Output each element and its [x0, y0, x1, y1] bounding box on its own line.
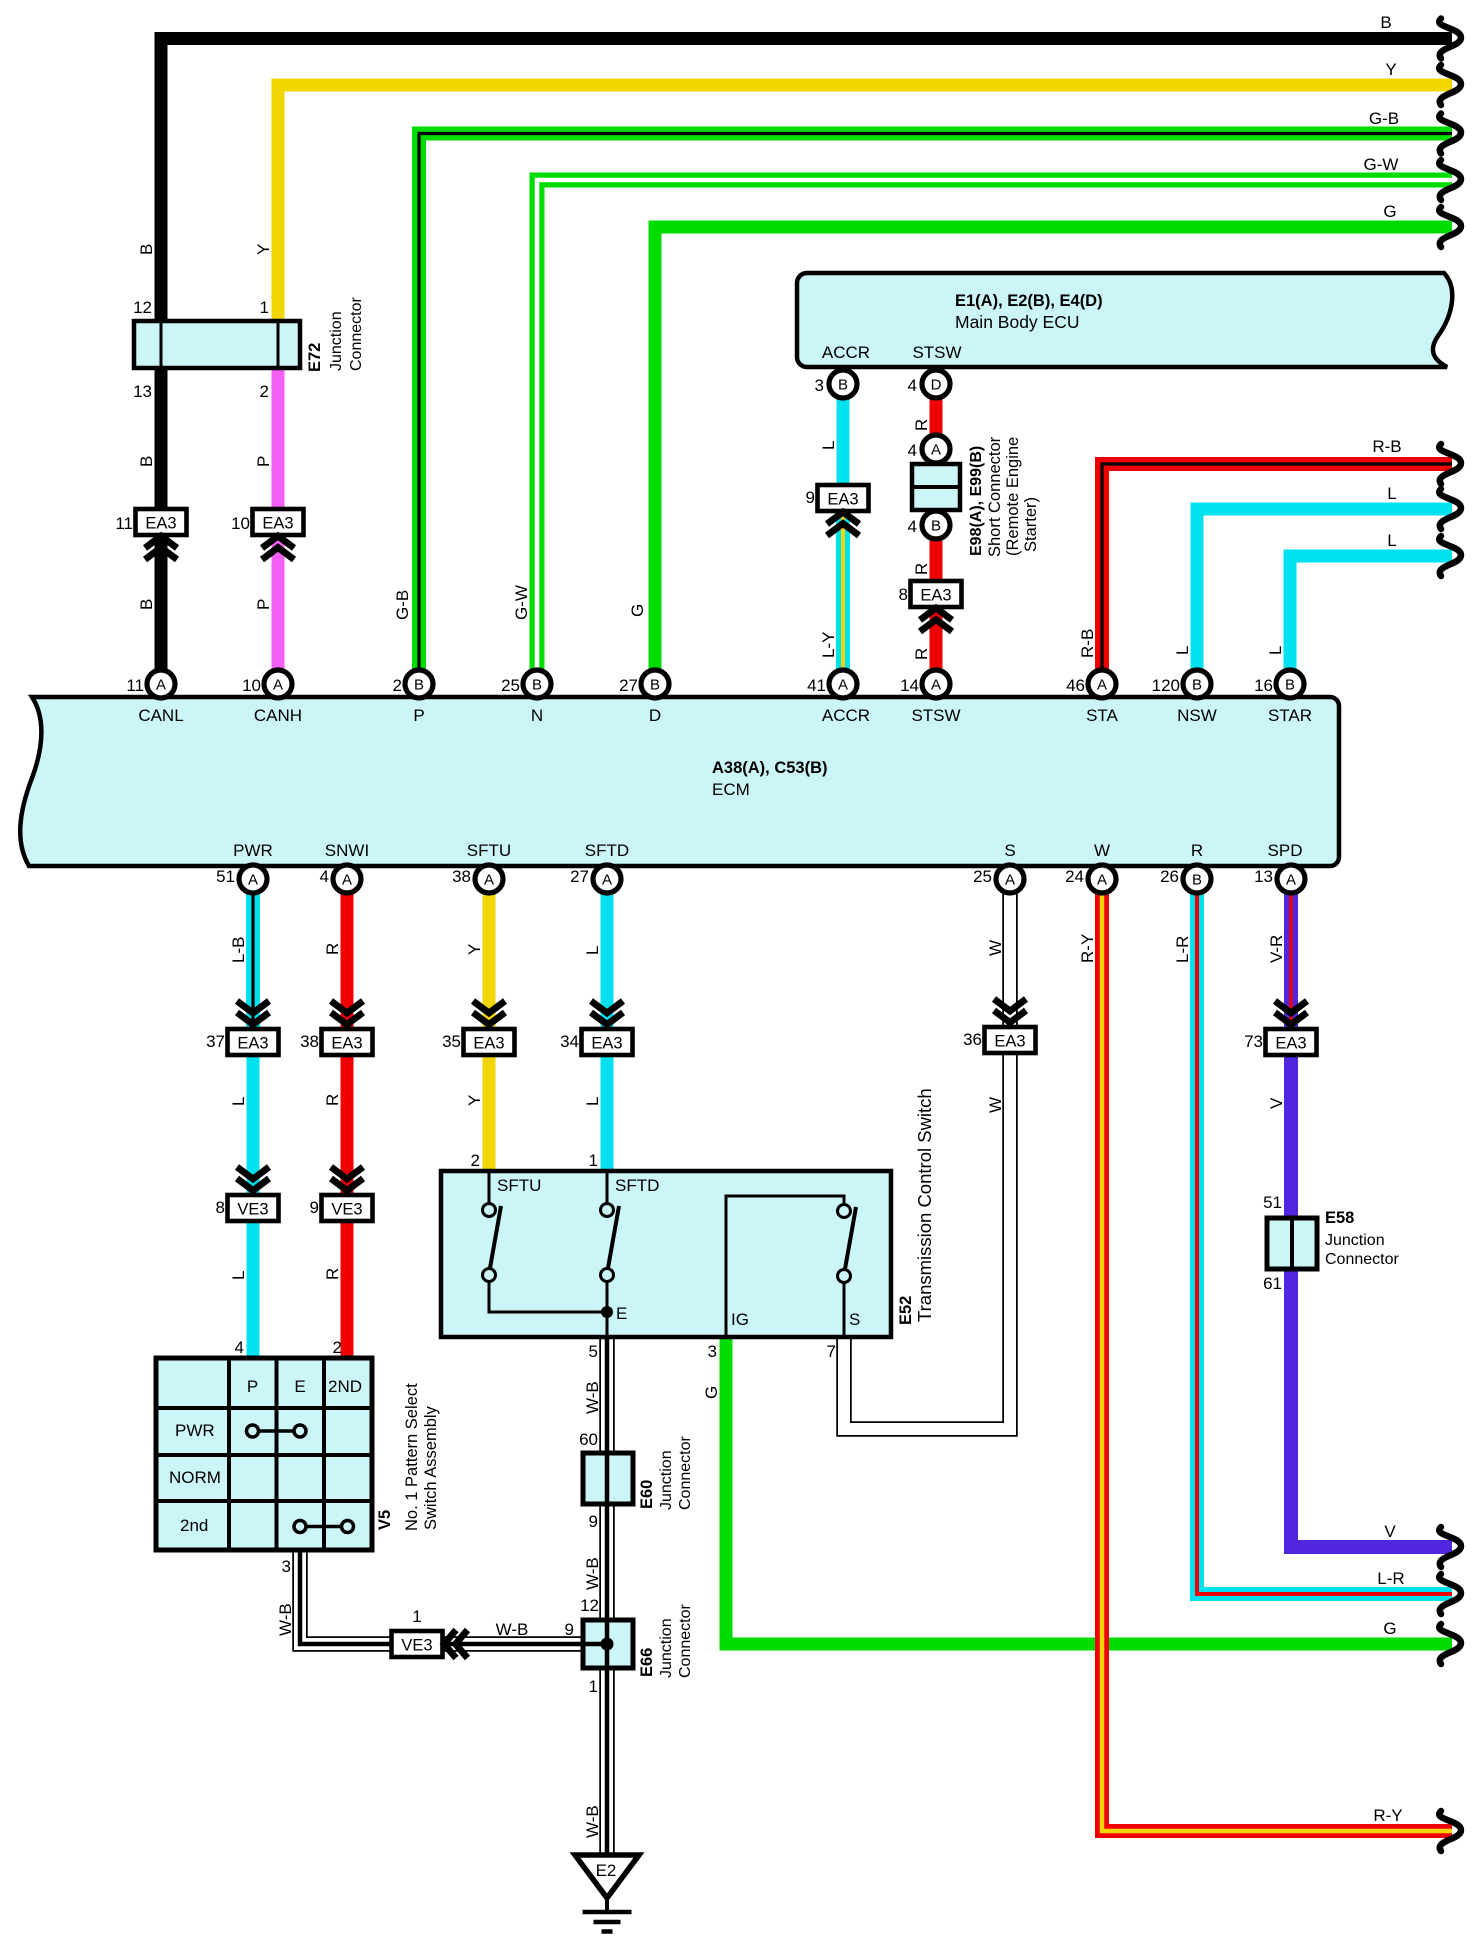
svg-text:B: B — [1285, 677, 1295, 694]
svg-text:R: R — [912, 419, 931, 431]
svg-text:W: W — [986, 940, 1005, 956]
junction connector E60 — [583, 1453, 633, 1504]
svg-text:P: P — [254, 456, 273, 467]
wire G (D pin) to top rail — [655, 227, 1452, 669]
svg-text:R: R — [912, 648, 931, 660]
svg-text:P: P — [247, 1377, 258, 1396]
ECU pin 3(B) ACCR — [829, 370, 857, 398]
chevron down EA3#36 — [994, 999, 1026, 1023]
svg-text:L: L — [583, 1097, 602, 1106]
svg-text:Starter): Starter) — [1022, 497, 1040, 552]
wire L (ACCR upper) — [837, 399, 850, 486]
V5 2nd row contact — [294, 1521, 354, 1533]
svg-text:1: 1 — [412, 1607, 421, 1626]
svg-text:Junction: Junction — [658, 1618, 675, 1678]
svg-text:B: B — [931, 518, 941, 535]
svg-text:SPD: SPD — [1268, 841, 1303, 860]
svg-text:PWR: PWR — [233, 841, 273, 860]
wire break symbol L-STAR — [1439, 536, 1461, 576]
connector EA3 #11 — [136, 509, 187, 535]
svg-text:G: G — [1383, 1619, 1396, 1638]
svg-text:B: B — [137, 599, 156, 610]
svg-text:Connector: Connector — [348, 297, 365, 371]
svg-text:E: E — [616, 1304, 627, 1323]
svg-text:L-Y: L-Y — [819, 632, 838, 658]
wire V (SPD seg2) — [1284, 1054, 1298, 1218]
svg-text:Switch Assembly: Switch Assembly — [422, 1405, 440, 1530]
wire break symbol V — [1439, 1527, 1461, 1567]
svg-text:G-W: G-W — [1364, 155, 1399, 174]
svg-text:No. 1 Pattern Select: No. 1 Pattern Select — [403, 1383, 421, 1531]
ECM bottom pin 38(A) — [475, 865, 503, 893]
svg-text:A: A — [838, 677, 848, 694]
svg-text:ACCR: ACCR — [822, 343, 870, 362]
short connector E98/E99 — [912, 464, 960, 510]
svg-text:A: A — [931, 442, 941, 459]
ECM bottom pin 4(A) — [333, 865, 361, 893]
svg-text:A: A — [602, 872, 612, 889]
ECM top pin 25(B) — [523, 670, 551, 698]
ECM top pin 14(A) — [922, 670, 950, 698]
svg-text:R-B: R-B — [1078, 629, 1097, 658]
svg-text:L: L — [1387, 484, 1396, 503]
svg-text:16: 16 — [1254, 676, 1273, 695]
svg-text:120: 120 — [1152, 676, 1180, 695]
wire break symbol L-NSW — [1439, 489, 1461, 529]
svg-text:EA3: EA3 — [237, 1035, 268, 1053]
ECM bottom pin 26(B) — [1183, 865, 1211, 893]
svg-text:EA3: EA3 — [473, 1035, 504, 1053]
wire break symbol L-R — [1439, 1574, 1461, 1614]
ECM bottom pin 25(A) — [996, 865, 1024, 893]
svg-text:D: D — [931, 377, 942, 394]
svg-text:A: A — [156, 677, 166, 694]
svg-text:B: B — [137, 456, 156, 467]
wire V-R (SPD seg1) — [1284, 894, 1298, 1030]
svg-text:10: 10 — [231, 514, 250, 533]
wire L-B (PWR seg1) — [246, 894, 260, 1030]
chevron down EA3#35 — [473, 1001, 505, 1025]
ECM top pin 120(B) — [1183, 670, 1211, 698]
svg-text:EA3: EA3 — [1275, 1035, 1306, 1053]
svg-text:R: R — [323, 1268, 342, 1280]
svg-text:W-B: W-B — [583, 1381, 602, 1414]
svg-text:Connector: Connector — [677, 1604, 694, 1678]
svg-text:Y: Y — [465, 1095, 484, 1106]
svg-text:A: A — [931, 677, 941, 694]
junction connector E66 — [583, 1620, 633, 1668]
svg-text:A: A — [1097, 677, 1107, 694]
wire W (S seg2) to E52 pin7 — [844, 1052, 1010, 1429]
ECM bottom pin 13(A) — [1277, 865, 1305, 893]
ECM top pin 46(A) — [1088, 670, 1116, 698]
svg-text:Y: Y — [254, 244, 273, 255]
wire L (SFTD seg1) — [601, 894, 614, 1030]
E52 node E junction dot — [601, 1304, 627, 1337]
connector VE3 #9 — [322, 1195, 373, 1221]
svg-text:E60: E60 — [638, 1480, 656, 1509]
svg-text:E72: E72 — [306, 343, 324, 372]
svg-text:W-B: W-B — [276, 1603, 295, 1636]
svg-text:V5: V5 — [376, 1510, 394, 1530]
wire R (SNWI seg3) — [341, 1220, 354, 1358]
svg-text:B: B — [414, 677, 424, 694]
svg-text:Short Connector: Short Connector — [986, 436, 1004, 557]
svg-text:A: A — [1097, 872, 1107, 889]
ECM top pin 27(B) — [641, 670, 669, 698]
wire W-B (V5 pin3 to E66) — [300, 1550, 583, 1644]
wire Y (SFTU seg2) — [483, 1054, 496, 1171]
junction connector E58 — [1267, 1218, 1317, 1269]
ECU pin 4(D) STSW — [922, 370, 950, 398]
svg-text:A: A — [273, 677, 283, 694]
svg-text:5: 5 — [589, 1342, 598, 1361]
svg-text:W: W — [986, 1097, 1005, 1113]
svg-text:L: L — [229, 1271, 248, 1280]
svg-text:1: 1 — [589, 1677, 598, 1696]
wire R (STSW seg1) — [930, 399, 943, 434]
svg-text:EA3: EA3 — [145, 515, 176, 533]
svg-text:A: A — [1286, 872, 1296, 889]
svg-text:STSW: STSW — [912, 343, 961, 362]
svg-text:9: 9 — [589, 1512, 598, 1531]
wire G (E52 IG pin3) — [726, 1337, 1452, 1644]
svg-text:Connector: Connector — [1325, 1251, 1399, 1268]
wire B (CANL) from E72 to top rail — [161, 39, 1452, 670]
svg-text:EA3: EA3 — [262, 515, 293, 533]
chevron down VE3#9 — [331, 1167, 363, 1191]
switch assembly V5 No.1 pattern select switch — [156, 1358, 372, 1550]
svg-text:Connector: Connector — [677, 1436, 694, 1510]
svg-text:R: R — [323, 1094, 342, 1106]
svg-text:4: 4 — [908, 517, 917, 536]
svg-text:38: 38 — [452, 867, 471, 886]
svg-text:W-B: W-B — [583, 1805, 602, 1838]
svg-text:2: 2 — [393, 676, 402, 695]
svg-text:13: 13 — [133, 382, 152, 401]
svg-text:EA3: EA3 — [920, 587, 951, 605]
chevron up EA3#9 — [827, 512, 859, 536]
svg-text:9: 9 — [310, 1198, 319, 1217]
svg-text:4: 4 — [908, 376, 917, 395]
chevron down EA3#73 — [1275, 1001, 1307, 1025]
svg-text:36: 36 — [963, 1030, 982, 1049]
svg-text:L: L — [1387, 531, 1396, 550]
svg-text:(Remote Engine: (Remote Engine — [1004, 437, 1022, 556]
wire G-W (N pin) to top rail — [537, 180, 1452, 669]
svg-text:VE3: VE3 — [401, 1637, 432, 1655]
E98 pin 4(A) — [922, 435, 950, 463]
svg-text:E58: E58 — [1325, 1209, 1354, 1227]
wire R (STSW seg3) — [930, 606, 943, 669]
svg-text:25: 25 — [973, 867, 992, 886]
connector EA3 #73 — [1266, 1029, 1317, 1055]
svg-text:26: 26 — [1160, 867, 1179, 886]
wire Y (CANH upper) to top rail — [278, 85, 1452, 321]
svg-text:P: P — [413, 706, 424, 725]
svg-text:D: D — [649, 706, 661, 725]
connector EA3 #35 — [464, 1029, 515, 1055]
svg-text:12: 12 — [580, 1596, 599, 1615]
svg-text:SFTU: SFTU — [497, 1176, 541, 1195]
svg-text:R: R — [323, 943, 342, 955]
ECM bottom pin 24(A) — [1088, 865, 1116, 893]
ECM top pin 2(B) — [405, 670, 433, 698]
wire R (SNWI seg2) — [341, 1054, 354, 1196]
svg-text:E: E — [294, 1377, 305, 1396]
svg-text:2: 2 — [333, 1338, 342, 1357]
svg-text:4: 4 — [320, 867, 329, 886]
E98 pin 4(B) — [922, 511, 950, 539]
chevron down VE3#8 — [237, 1167, 269, 1191]
svg-text:B: B — [1192, 872, 1202, 889]
wire L-Y (ACCR lower) — [836, 510, 850, 669]
connector EA3 #36 — [985, 1027, 1036, 1053]
connector EA3 #8 — [911, 581, 962, 607]
svg-text:V: V — [1267, 1097, 1286, 1109]
svg-text:4: 4 — [908, 441, 917, 460]
connector VE3 #8 — [228, 1195, 279, 1221]
wire break symbol G-IG — [1439, 1624, 1461, 1664]
svg-text:L: L — [1266, 646, 1285, 655]
svg-text:1: 1 — [260, 298, 269, 317]
chevron down EA3#37 — [237, 1001, 269, 1025]
chevron up EA3#11 — [145, 536, 177, 560]
svg-text:B: B — [532, 677, 542, 694]
svg-text:38: 38 — [300, 1032, 319, 1051]
svg-text:A: A — [484, 872, 494, 889]
connector EA3 #34 — [582, 1029, 633, 1055]
svg-text:A: A — [248, 872, 258, 889]
connector EA3 #9 — [818, 485, 869, 511]
wire R-Y (W pin) — [1102, 894, 1452, 1831]
svg-text:Junction: Junction — [1325, 1232, 1385, 1249]
wire Y (SFTU seg1) — [483, 894, 496, 1030]
svg-text:S: S — [849, 1310, 860, 1329]
svg-text:VE3: VE3 — [331, 1201, 362, 1219]
connector VE3 #1 — [392, 1631, 443, 1657]
ECM top pin 11(A) — [147, 670, 175, 698]
svg-text:L-R: L-R — [1173, 936, 1192, 963]
svg-text:46: 46 — [1066, 676, 1085, 695]
wire G-B (P pin) to top rail — [419, 134, 1452, 670]
svg-text:10: 10 — [242, 676, 261, 695]
svg-text:E1(A), E2(B), E4(D): E1(A), E2(B), E4(D) — [955, 292, 1103, 310]
svg-text:W-B: W-B — [496, 1620, 529, 1639]
svg-text:Junction: Junction — [328, 311, 345, 371]
wire L (PWR seg2) — [247, 1054, 260, 1196]
svg-text:8: 8 — [216, 1198, 225, 1217]
wire L (PWR seg3) — [247, 1220, 260, 1358]
svg-text:E66: E66 — [638, 1648, 656, 1677]
wire V (SPD seg3) — [1291, 1269, 1452, 1547]
ground symbol E2 — [575, 1855, 639, 1932]
switch assembly E52 transmission control switch box — [441, 1171, 891, 1337]
svg-text:SNWI: SNWI — [325, 841, 369, 860]
svg-text:4: 4 — [235, 1338, 244, 1357]
wire L (NSW) — [1197, 509, 1452, 669]
svg-text:CANH: CANH — [254, 706, 302, 725]
svg-text:3: 3 — [282, 1557, 291, 1576]
svg-text:60: 60 — [579, 1430, 598, 1449]
svg-text:13: 13 — [1254, 867, 1273, 886]
svg-text:73: 73 — [1244, 1032, 1263, 1051]
svg-text:24: 24 — [1065, 867, 1084, 886]
wire break symbol B — [1439, 19, 1461, 59]
svg-text:51: 51 — [216, 867, 235, 886]
E52 SFTD switch — [601, 1171, 660, 1312]
svg-text:B: B — [1380, 13, 1391, 32]
svg-text:2ND: 2ND — [328, 1377, 362, 1396]
ECM bottom pin 51(A) — [239, 865, 267, 893]
svg-text:G-B: G-B — [393, 590, 412, 620]
svg-text:G: G — [628, 604, 647, 617]
svg-text:41: 41 — [807, 676, 826, 695]
svg-text:L: L — [1173, 646, 1192, 655]
svg-text:R-B: R-B — [1372, 437, 1401, 456]
svg-text:B: B — [650, 677, 660, 694]
svg-text:G-W: G-W — [512, 585, 531, 620]
svg-text:R-Y: R-Y — [1078, 934, 1097, 963]
wire R-B (STA) — [1102, 464, 1452, 669]
wire break symbol G-B — [1439, 114, 1461, 154]
svg-text:9: 9 — [565, 1620, 574, 1639]
svg-text:E52: E52 — [897, 1296, 915, 1325]
svg-text:E98(A), E99(B): E98(A), E99(B) — [968, 446, 985, 556]
wire L (SFTD seg2) — [601, 1054, 614, 1171]
svg-text:L-B: L-B — [229, 937, 248, 963]
chevron up EA3#10 — [262, 536, 294, 560]
wire break symbol R-Y — [1439, 1811, 1461, 1851]
svg-text:2: 2 — [260, 382, 269, 401]
svg-text:Transmission Control Switch: Transmission Control Switch — [914, 1088, 935, 1322]
svg-text:27: 27 — [619, 676, 638, 695]
svg-text:R: R — [1191, 841, 1203, 860]
connector EA3 #38 — [322, 1029, 373, 1055]
svg-text:Main Body ECU: Main Body ECU — [955, 312, 1080, 332]
svg-text:3: 3 — [708, 1342, 717, 1361]
svg-text:R: R — [912, 563, 931, 575]
svg-text:W-B: W-B — [583, 1557, 602, 1590]
wire break symbol G — [1439, 207, 1461, 247]
chevron down EA3#38 — [331, 1001, 363, 1025]
svg-text:25: 25 — [501, 676, 520, 695]
wire L (STAR) — [1290, 556, 1452, 669]
svg-text:EA3: EA3 — [994, 1033, 1025, 1051]
chevron left VE3#1 — [444, 1630, 468, 1658]
svg-text:P: P — [254, 599, 273, 610]
wire W (S seg1) — [1002, 894, 1018, 1028]
connector EA3 #10 — [253, 509, 304, 535]
svg-text:IG: IG — [731, 1310, 749, 1329]
ECM top pin 16(B) — [1276, 670, 1304, 698]
svg-text:PWR: PWR — [175, 1421, 215, 1440]
svg-text:51: 51 — [1263, 1193, 1282, 1212]
svg-text:2nd: 2nd — [180, 1516, 208, 1535]
svg-text:B: B — [137, 244, 156, 255]
wire break symbol Y — [1439, 65, 1461, 105]
chevron up EA3#8 — [920, 608, 952, 632]
svg-text:Y: Y — [1385, 60, 1396, 79]
ECM top pin 41(A) — [829, 670, 857, 698]
svg-text:9: 9 — [806, 488, 815, 507]
svg-text:V: V — [1384, 1522, 1396, 1541]
E52 IG-S switch — [726, 1196, 860, 1337]
svg-text:G: G — [702, 1386, 721, 1399]
wire W-B (E52 pin5 ground run) — [599, 1337, 615, 1854]
svg-text:E2: E2 — [596, 1861, 617, 1880]
wire P (CANH lower) — [272, 368, 285, 669]
svg-text:27: 27 — [570, 867, 589, 886]
E52 SFTU switch — [483, 1171, 608, 1312]
svg-text:NSW: NSW — [1177, 706, 1217, 725]
wire R (SNWI seg1) — [341, 894, 354, 1030]
svg-text:V-R: V-R — [1267, 935, 1286, 963]
svg-text:SFTD: SFTD — [585, 841, 629, 860]
svg-text:L: L — [583, 946, 602, 955]
svg-text:3: 3 — [815, 376, 824, 395]
svg-text:VE3: VE3 — [237, 1201, 268, 1219]
svg-text:EA3: EA3 — [591, 1035, 622, 1053]
V5 PWR row contact — [247, 1425, 307, 1437]
svg-text:NORM: NORM — [169, 1468, 221, 1487]
svg-text:SFTU: SFTU — [467, 841, 511, 860]
svg-text:R-Y: R-Y — [1373, 1806, 1402, 1825]
junction connector E72 — [134, 321, 300, 368]
svg-text:G-B: G-B — [1369, 109, 1399, 128]
svg-text:1: 1 — [589, 1151, 598, 1170]
svg-text:SFTD: SFTD — [615, 1176, 659, 1195]
svg-text:11: 11 — [126, 676, 144, 695]
svg-text:B: B — [1192, 677, 1202, 694]
svg-text:STSW: STSW — [911, 706, 960, 725]
ECM bottom pin 27(A) — [593, 865, 621, 893]
connector EA3 #37 — [228, 1029, 279, 1055]
svg-text:A: A — [342, 872, 352, 889]
svg-text:A: A — [1005, 872, 1015, 889]
svg-text:CANL: CANL — [138, 706, 183, 725]
svg-text:G: G — [1383, 202, 1396, 221]
svg-text:8: 8 — [899, 585, 908, 604]
svg-text:14: 14 — [900, 676, 919, 695]
ECU E1/E2/E4 Main Body ECU box — [797, 273, 1452, 367]
wire L-R (R pin) — [1197, 894, 1452, 1594]
svg-text:7: 7 — [827, 1342, 836, 1361]
svg-text:EA3: EA3 — [331, 1035, 362, 1053]
chevron down EA3#34 — [591, 1001, 623, 1025]
svg-text:STA: STA — [1086, 706, 1118, 725]
wire break symbol G-W — [1439, 160, 1461, 200]
svg-text:STAR: STAR — [1268, 706, 1312, 725]
svg-text:N: N — [531, 706, 543, 725]
svg-text:61: 61 — [1263, 1274, 1282, 1293]
svg-text:L: L — [819, 441, 838, 450]
svg-text:L-R: L-R — [1377, 1569, 1404, 1588]
svg-text:W: W — [1094, 841, 1110, 860]
svg-text:EA3: EA3 — [827, 491, 858, 509]
svg-text:37: 37 — [206, 1032, 225, 1051]
ECM top pin 10(A) — [264, 670, 292, 698]
svg-text:L: L — [229, 1097, 248, 1106]
svg-text:11: 11 — [115, 514, 133, 533]
wire break symbol R-B — [1439, 444, 1461, 484]
svg-text:2: 2 — [471, 1151, 480, 1170]
svg-text:34: 34 — [560, 1032, 579, 1051]
svg-text:Y: Y — [465, 944, 484, 955]
svg-text:S: S — [1004, 841, 1015, 860]
svg-text:ECM: ECM — [712, 780, 750, 799]
wire R (STSW seg2) — [930, 540, 943, 582]
